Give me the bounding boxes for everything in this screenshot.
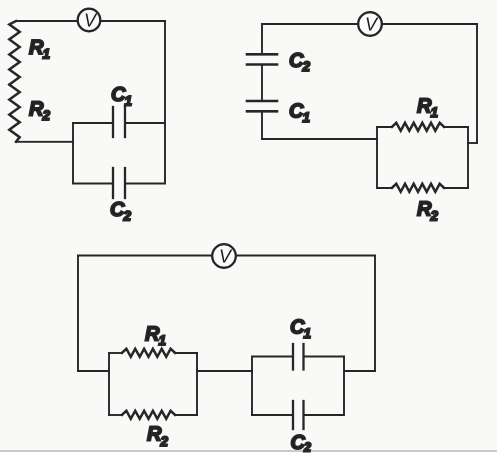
label C1 (circuit 2) xyxy=(289,101,310,126)
capacitor C1 (circuit 2) xyxy=(247,101,277,111)
label C2 (circuit 1) xyxy=(110,199,131,224)
resistor R2 (circuit 3) xyxy=(109,411,197,419)
label R2 (circuit 3) xyxy=(147,424,168,450)
wire: circuit-3 wire into resistor block xyxy=(78,370,109,372)
wire: circuit-3 left vertical xyxy=(77,256,79,372)
wire: circuit-1 bottom-left wire from R2 to capacitor block xyxy=(16,141,73,143)
label R1 (circuit 2) xyxy=(417,96,438,121)
svg-text:R2: R2 xyxy=(147,424,168,450)
svg-text:R2: R2 xyxy=(417,198,438,223)
resistor R2 (circuit 2) xyxy=(377,184,468,192)
wire: circuit-2 bottom wire to resistor block xyxy=(262,138,377,140)
svg-text:C2: C2 xyxy=(291,432,311,455)
capacitor C1 (circuit 3) xyxy=(252,344,344,370)
wire: circuit-3 top wire xyxy=(78,255,375,257)
wire: circuit-2 resistor block right vertical xyxy=(467,127,469,188)
resistor R2 (circuit 1, lower half of series zigzag) xyxy=(9,85,19,142)
wire: circuit-1 top wire with voltmeter tap xyxy=(16,20,165,22)
svg-text:C2: C2 xyxy=(110,199,131,224)
svg-text:R1: R1 xyxy=(417,96,438,121)
wire: circuit-3 connector from block to right vertical xyxy=(344,370,375,372)
wire: circuit-2 resistor block left vertical xyxy=(376,127,378,188)
label C2 (circuit 2) xyxy=(289,50,310,74)
label C1 (circuit 3) xyxy=(290,317,311,342)
label R1 (circuit 1) xyxy=(29,37,50,62)
wire: circuit-2 right vertical xyxy=(476,24,478,143)
svg-text:V: V xyxy=(84,11,98,31)
wire: circuit-2 top wire xyxy=(262,23,477,25)
svg-text:V: V xyxy=(219,247,233,267)
label C1 (circuit 1) xyxy=(111,84,132,109)
svg-text:C1: C1 xyxy=(111,84,132,109)
svg-text:C1: C1 xyxy=(289,101,310,126)
capacitor C2 (circuit 3) xyxy=(252,401,344,429)
wire: circuit-3 resistor block left vertical xyxy=(108,353,110,415)
label R1 (circuit 3) xyxy=(145,324,166,349)
resistor R1 (circuit 2) xyxy=(377,123,468,131)
svg-text:V: V xyxy=(365,15,379,35)
voltmeter U2 (circuit 2) xyxy=(358,12,382,36)
svg-text:R2: R2 xyxy=(29,99,50,124)
voltmeter U1 (circuit 1) xyxy=(78,9,101,32)
svg-text:R1: R1 xyxy=(145,324,166,349)
wire: circuit-2 left vertical between capacitors xyxy=(261,66,263,100)
wire: circuit-1 right vertical xyxy=(164,21,166,184)
wire: circuit-2 left vertical lower segment xyxy=(261,113,263,139)
capacitor C1 (circuit 1) xyxy=(73,107,165,137)
label R2 (circuit 2) xyxy=(417,198,438,223)
svg-text:C2: C2 xyxy=(289,50,310,74)
svg-text:R1: R1 xyxy=(29,37,50,62)
resistor R1 (circuit 3) xyxy=(109,349,197,357)
wire: circuit-2 connector from block to right vertical xyxy=(468,142,477,144)
label C2 (circuit 3) xyxy=(291,432,311,455)
resistor R1 (circuit 1, upper half of series zigzag) xyxy=(9,21,19,85)
page footer separator line xyxy=(0,450,497,452)
wire: circuit-3 right vertical xyxy=(374,256,376,372)
voltmeter U3 (circuit 3) xyxy=(212,244,236,268)
svg-text:C1: C1 xyxy=(290,317,311,342)
capacitor C2 (circuit 1) xyxy=(73,168,165,198)
capacitor C2 (circuit 2) xyxy=(247,54,277,64)
wire: circuit-3 middle wire between blocks xyxy=(197,370,252,372)
wire: circuit-1 capacitor block left vertical xyxy=(72,123,74,184)
wire: circuit-3 capacitor block right vertical xyxy=(343,357,345,416)
wire: circuit-2 left vertical upper segment xyxy=(261,24,263,53)
wire: circuit-3 capacitor block left vertical xyxy=(251,357,253,416)
wire: circuit-3 resistor block right vertical xyxy=(196,353,198,415)
label R2 (circuit 1) xyxy=(29,99,50,124)
